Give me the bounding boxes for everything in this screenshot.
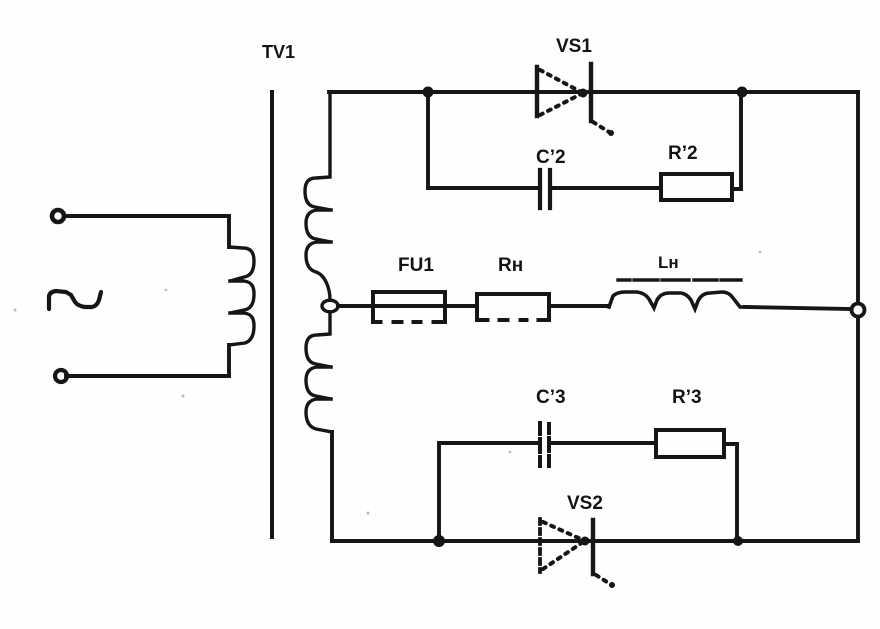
inductor Lн [609, 292, 745, 309]
thyristor VS1 apex dot [579, 89, 588, 98]
thyristor VS1 dashed triangle [540, 70, 581, 115]
wire middle rail left [338, 304, 477, 308]
wire snubber1 left drop [428, 92, 538, 188]
wire snubber2 left drop [439, 443, 538, 541]
resistor R'3 [656, 430, 724, 457]
svg-text:VS2: VS2 [567, 493, 603, 514]
fuse FU1 [373, 292, 445, 322]
wire top rail [329, 90, 858, 94]
wire right side lower [856, 317, 860, 541]
scan breaks on box bottom edges [385, 320, 534, 322]
svg-text:R’2: R’2 [668, 143, 698, 164]
wire primary top [65, 216, 229, 247]
secondary winding upper half [305, 94, 331, 300]
scan speckles [14, 251, 762, 515]
svg-text:Rн: Rн [498, 255, 523, 276]
svg-text:FU1: FU1 [398, 255, 434, 276]
thyristor VS2 apex dot [581, 537, 590, 546]
svg-text:Lн: Lн [658, 253, 679, 272]
wire Lн to load terminal [745, 307, 851, 309]
thyristor VS2 dashed triangle [543, 522, 583, 569]
wire C'3 to R'3 [551, 441, 656, 445]
transformer TV1 primary winding [229, 247, 254, 345]
svg-text:R’3: R’3 [672, 387, 702, 408]
node junction bottom left [433, 535, 445, 547]
primary terminal bottom [55, 370, 67, 382]
wire primary bottom [66, 345, 229, 376]
primary terminal top [52, 210, 64, 222]
thyristor VS1 gate lead [593, 122, 609, 132]
wire bottom rail [332, 539, 858, 543]
node junction top right [737, 87, 748, 98]
node junction top left [423, 87, 434, 98]
secondary centre tap node [322, 300, 338, 312]
capacitor C'2 [540, 170, 550, 208]
wire Rн to Lн [549, 304, 609, 308]
svg-text:TV1: TV1 [262, 42, 295, 62]
thyristor VS1 cathode bar [589, 64, 593, 121]
wire secondary bottom stem [330, 432, 334, 541]
AC source sine symbol [49, 291, 101, 309]
resistor Rн [477, 294, 549, 320]
node junction bottom right [733, 536, 743, 546]
svg-text:C’3: C’3 [536, 387, 566, 408]
thyristor VS1 anode bar [535, 67, 539, 116]
thyristor VS2 anode bar (dashed) [538, 519, 542, 572]
transformer core [270, 92, 274, 537]
thyristor VS2 cathode bar [591, 520, 595, 574]
wire right side upper [856, 92, 860, 303]
inductor Lн core bar [618, 278, 741, 281]
wire R'2 up to top rail [732, 92, 741, 189]
capacitor C'3 [540, 423, 549, 466]
resistor R'2 [661, 174, 732, 200]
wire R'3 down to bottom rail [724, 444, 737, 541]
wire C'2 to R'2 [552, 186, 661, 190]
svg-text:VS1: VS1 [556, 36, 592, 57]
thyristor VS2 gate lead [596, 575, 610, 584]
load terminal node (open circle) [852, 304, 865, 317]
secondary winding lower half [306, 312, 332, 432]
svg-text:C’2: C’2 [536, 147, 566, 168]
